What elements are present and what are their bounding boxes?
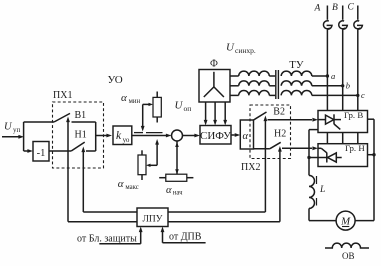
svg-text:U: U	[175, 100, 184, 112]
svg-text:Н2: Н2	[274, 129, 286, 140]
svg-text:уо: уо	[123, 136, 130, 144]
svg-text:УО: УО	[108, 74, 123, 86]
svg-text:b: b	[346, 81, 350, 91]
svg-text:Ф: Ф	[210, 59, 218, 70]
svg-text:В1: В1	[75, 110, 87, 121]
svg-text:В2: В2	[273, 107, 285, 118]
svg-text:ПХ2: ПХ2	[241, 162, 260, 173]
svg-text:уп: уп	[13, 126, 21, 134]
svg-text:ПХ1: ПХ1	[53, 90, 72, 101]
svg-text:-1: -1	[37, 148, 46, 159]
svg-text:нач: нач	[173, 190, 183, 197]
svg-text:от Бл. защиты: от Бл. защиты	[77, 234, 137, 245]
svg-text:α: α	[121, 92, 127, 104]
svg-text:Гр. Н: Гр. Н	[345, 143, 365, 153]
svg-text:мин: мин	[129, 98, 141, 105]
svg-text:A: A	[314, 4, 321, 14]
svg-text:a: a	[331, 71, 335, 81]
svg-text:α: α	[166, 185, 172, 196]
svg-text:СИФУ: СИФУ	[200, 130, 231, 142]
svg-text:ЛПУ: ЛПУ	[142, 214, 162, 224]
svg-text:L: L	[319, 185, 325, 195]
svg-text:U: U	[226, 42, 235, 54]
svg-text:α: α	[118, 178, 124, 190]
svg-text:от ДПВ: от ДПВ	[169, 232, 202, 243]
svg-text:ОВ: ОВ	[342, 251, 355, 261]
svg-text:C: C	[348, 3, 355, 13]
svg-text:оп: оп	[184, 104, 192, 113]
svg-text:синхр.: синхр.	[235, 46, 256, 55]
svg-text:Гр. В: Гр. В	[344, 110, 363, 120]
svg-text:c: c	[361, 90, 365, 100]
svg-text:макс: макс	[125, 184, 138, 191]
svg-text:Н1: Н1	[75, 130, 87, 141]
svg-text:B: B	[332, 3, 338, 13]
svg-text:k: k	[116, 130, 122, 142]
svg-text:ТУ: ТУ	[289, 59, 304, 71]
svg-text:α: α	[243, 131, 249, 142]
svg-text:М: М	[340, 216, 351, 228]
